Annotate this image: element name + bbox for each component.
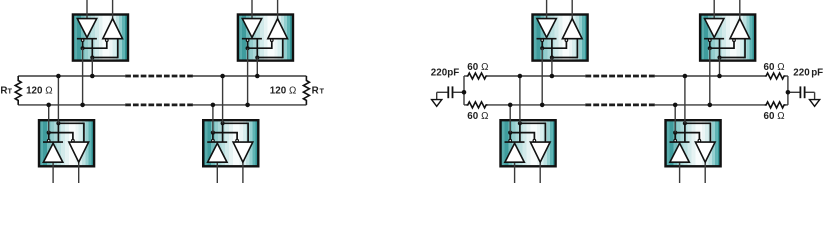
svg-text:60: 60 [467,62,478,73]
svg-text:R: R [0,85,7,96]
svg-text:T: T [320,86,325,95]
svg-text:60: 60 [467,111,478,122]
svg-text:Ω: Ω [45,85,52,96]
svg-text:220: 220 [431,67,448,78]
svg-text:pF: pF [811,67,823,78]
svg-text:60: 60 [764,62,775,73]
svg-text:Ω: Ω [481,111,488,122]
svg-text:Ω: Ω [289,85,296,96]
svg-text:R: R [312,85,319,96]
svg-text:220: 220 [793,67,810,78]
svg-text:120: 120 [270,85,287,96]
svg-text:Ω: Ω [777,62,784,73]
svg-text:120: 120 [26,85,43,96]
svg-text:pF: pF [447,67,459,78]
svg-text:Ω: Ω [777,111,784,122]
svg-text:60: 60 [764,111,775,122]
svg-text:T: T [8,86,13,95]
svg-text:Ω: Ω [481,62,488,73]
